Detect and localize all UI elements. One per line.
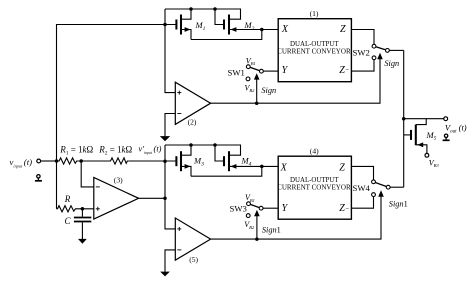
resistor R2 — [110, 158, 129, 164]
wire input terminal to node — [41, 160, 57, 162]
arrowhead Sign1 control at SW3 — [254, 210, 260, 216]
arrowhead Sign1 control at SW4 — [378, 190, 384, 197]
svg-text:vinput (t): vinput (t) — [10, 157, 33, 169]
svg-text:Sign1: Sign1 — [262, 225, 281, 234]
resistor R — [57, 206, 78, 212]
transistor M4 — [215, 145, 278, 171]
wire M1/M2 source bottom link — [191, 30, 262, 40]
svg-text:X: X — [280, 162, 288, 173]
svg-text:Z−: Z− — [339, 65, 350, 76]
ground under C — [78, 239, 87, 244]
node X1 dot — [260, 28, 264, 32]
resistor R1 — [57, 158, 79, 164]
svg-text:X: X — [281, 24, 289, 35]
wire R2 to v'_input node — [128, 160, 176, 162]
svg-text:C: C — [65, 216, 72, 226]
ground under op-amp (5) — [160, 272, 170, 277]
svg-text:Sign: Sign — [384, 59, 399, 68]
ground under op-amp (2) — [160, 136, 170, 141]
op-amp U5 (comparator (5)) — [175, 218, 210, 260]
svg-text:Vout (t): Vout (t) — [445, 123, 467, 135]
wire SW4 common to right vertical — [390, 186, 404, 188]
wire op-amp (5) - input to ground — [165, 250, 175, 272]
svg-text:VB1: VB1 — [246, 57, 256, 67]
svg-text:M4: M4 — [241, 156, 252, 168]
wire M3/M4 source bottom link — [191, 166, 262, 176]
wire R1 to R2 — [78, 160, 109, 162]
switch SW2 — [372, 44, 389, 59]
svg-text:(1): (1) — [310, 9, 319, 18]
svg-text:VB1: VB1 — [245, 193, 255, 203]
switch SW3 — [246, 202, 263, 218]
node Sign1 branch dot for SW3 — [255, 237, 259, 241]
svg-text:SW2: SW2 — [353, 47, 370, 57]
wire op-amp (3) output to v'_input vertical — [139, 197, 165, 199]
wire rail-left vertical to op-amp (2) + input — [165, 9, 175, 93]
svg-text:R1 = 1kΩ: R1 = 1kΩ — [59, 145, 93, 157]
svg-text:VB2: VB2 — [244, 220, 255, 230]
node M3 drain dot on lower rail — [189, 143, 193, 147]
svg-text:M3: M3 — [193, 156, 204, 168]
wire op-amp (2) - input to ground — [165, 114, 175, 137]
node v'_input junction dot — [163, 159, 167, 163]
wire input node: M1 gate lead, left vertical down to R — [57, 25, 177, 209]
node input junction dot — [55, 159, 59, 163]
wire SW3 common to Y (4) — [263, 207, 278, 209]
ground reference terminal at output — [443, 134, 450, 140]
svg-text:v′input (t): v′input (t) — [139, 145, 162, 156]
wire SW2 common to right vertical — [389, 49, 403, 51]
svg-text:Z−: Z− — [339, 203, 350, 214]
svg-text:(3): (3) — [114, 176, 123, 185]
svg-text:CURRENT CONVEYOR: CURRENT CONVEYOR — [277, 183, 351, 192]
svg-text:M5: M5 — [426, 130, 437, 142]
svg-text:VB2: VB2 — [245, 83, 256, 93]
svg-text:SW4: SW4 — [353, 183, 371, 193]
svg-text:M2: M2 — [244, 20, 255, 32]
wire lower rail with M4 drain drop — [165, 145, 241, 155]
capacitor C — [74, 209, 91, 239]
terminal output V_out(t) — [444, 117, 448, 121]
dual-output current conveyor U1 — [277, 19, 351, 82]
wire op-amp (2) output Sign line — [211, 59, 380, 103]
switch SW4 — [372, 180, 391, 197]
terminal input v_input(t) — [37, 159, 41, 163]
wire Z (4) to SW4 upper throw — [351, 166, 373, 180]
svg-text:M1: M1 — [195, 20, 206, 32]
node M4 gate dot on lower rail — [213, 143, 217, 147]
node Sign branch dot for SW1 — [255, 101, 259, 105]
wire M5 drain line to output terminal — [404, 118, 444, 120]
node op-amp (3) output dot — [163, 197, 167, 201]
terminal VB3 at M5 source — [425, 153, 429, 157]
node junction dot input-node / rail-vertical crossing — [163, 23, 167, 27]
node X4 dot — [260, 165, 264, 169]
transistor M5 — [404, 119, 427, 154]
node M5 drain dot on right vertical — [402, 117, 406, 121]
svg-text:CURRENT CONVEYOR: CURRENT CONVEYOR — [277, 47, 351, 56]
svg-text:SW1: SW1 — [228, 68, 245, 78]
op-amp U3 (filter buffer (3)) — [94, 178, 139, 220]
svg-text:(5): (5) — [189, 255, 198, 264]
wire Z- (4) to SW4 lower throw — [351, 197, 373, 209]
transistor M3 — [176, 145, 191, 176]
wire VDD top rail with M2 drain drop — [165, 9, 241, 19]
switch SW1 — [246, 65, 263, 81]
wire Z- (1) to SW2 lower throw — [351, 60, 374, 71]
svg-text:SW3: SW3 — [230, 204, 247, 214]
wire junction down to op-amp (3) - input — [81, 161, 94, 187]
svg-text:(4): (4) — [310, 146, 319, 155]
node M2 gate dot on rail — [213, 7, 217, 11]
node R/C junction dot — [81, 207, 85, 211]
ground reference terminal at input — [35, 175, 42, 181]
svg-text:R2 = 1kΩ: R2 = 1kΩ — [98, 145, 132, 157]
wire Z (1) to SW2 upper throw — [351, 30, 374, 45]
wire Sign arrow to SW1 — [256, 79, 258, 103]
wire lower-rail left vertical through v'_input down to op-amp (5) + input — [165, 145, 175, 229]
wire right vertical net (SW2 common to SW4 common, M5 gate) — [403, 50, 405, 187]
svg-text:VB3: VB3 — [429, 159, 440, 169]
transistor M1 — [176, 9, 191, 40]
wire op-amp (5) output Sign1 line — [211, 196, 381, 239]
svg-text:Sign: Sign — [261, 86, 276, 95]
transistor M2 — [215, 9, 278, 35]
svg-text:Z: Z — [339, 162, 345, 173]
arrowhead Sign control at SW2 — [377, 53, 383, 60]
wire Sign1 arrow to SW3 — [256, 216, 258, 239]
svg-text:Z: Z — [340, 24, 346, 35]
node M1 drain dot on rail — [189, 7, 193, 11]
dual-output current conveyor U4 — [277, 156, 351, 219]
svg-text:R: R — [64, 194, 71, 204]
svg-text:Sign1: Sign1 — [389, 199, 408, 208]
op-amp U2 (comparator (2)) — [175, 82, 210, 124]
svg-text:(2): (2) — [188, 117, 197, 126]
wire R to op-amp (3) + input — [77, 208, 94, 210]
arrowhead Sign control at SW1 — [254, 73, 260, 79]
node R1/R2 junction dot — [79, 159, 83, 163]
wire SW1 common to Y (1) — [263, 70, 278, 72]
